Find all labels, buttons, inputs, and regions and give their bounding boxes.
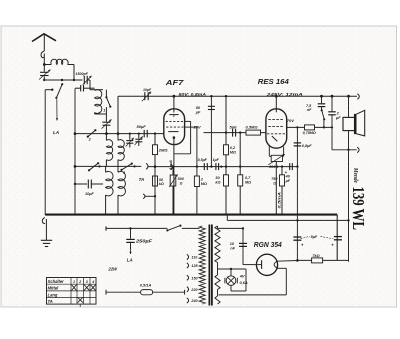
svg-text:TA: TA (48, 299, 53, 304)
svg-text:22W: 22W (107, 266, 118, 271)
svg-text:4: 4 (91, 280, 94, 284)
svg-text:7kΩ: 7kΩ (312, 254, 319, 258)
svg-text:5nF: 5nF (230, 125, 238, 130)
svg-text:0,5mA: 0,5mA (276, 192, 281, 209)
svg-text:25V: 25V (193, 124, 201, 129)
svg-text:1: 1 (103, 109, 105, 113)
svg-text:1mA: 1mA (169, 160, 173, 170)
svg-text:1: 1 (73, 280, 75, 284)
svg-text:70V: 70V (287, 118, 294, 123)
svg-text:4V: 4V (239, 273, 245, 278)
svg-text:139 WL: 139 WL (349, 187, 368, 231)
svg-text:1µF: 1µF (213, 158, 220, 162)
svg-text:+: + (331, 242, 334, 247)
svg-text:Ω: Ω (272, 181, 276, 185)
svg-text:240: 240 (190, 299, 198, 303)
svg-text:125: 125 (191, 264, 198, 268)
svg-text:µF: µF (195, 110, 201, 114)
svg-text:kΩ: kΩ (215, 180, 220, 184)
svg-text:Mende: Mende (352, 167, 359, 183)
svg-text:2MΩ: 2MΩ (158, 147, 169, 152)
svg-text:2: 2 (78, 280, 81, 284)
svg-text:0,8µF: 0,8µF (302, 144, 312, 148)
svg-text:Lang: Lang (48, 292, 58, 297)
svg-text:220: 220 (190, 288, 198, 292)
svg-text:kΩ: kΩ (159, 182, 164, 186)
svg-text:MΩ: MΩ (230, 150, 236, 154)
svg-text:1500pF: 1500pF (76, 72, 89, 76)
svg-text:MΩ: MΩ (201, 182, 207, 186)
svg-text:0,6A: 0,6A (240, 280, 248, 285)
svg-text:10µF: 10µF (85, 192, 94, 196)
svg-text:8µF: 8µF (311, 235, 318, 239)
svg-text:250µF: 250µF (135, 239, 153, 244)
svg-text:10pF: 10pF (143, 88, 152, 92)
svg-text:µF: µF (335, 116, 341, 120)
svg-text:150: 150 (191, 276, 198, 280)
svg-text:LA: LA (127, 258, 133, 263)
svg-text:RES 164: RES 164 (258, 77, 290, 86)
svg-text:0,5µF: 0,5µF (198, 158, 208, 162)
svg-text:nF: nF (307, 108, 312, 112)
svg-text:0,75MΩ: 0,75MΩ (303, 131, 316, 135)
svg-text:Schalter: Schalter (48, 279, 65, 284)
svg-text:245V; 12mA: 245V; 12mA (265, 92, 303, 97)
svg-text:LA: LA (53, 130, 59, 135)
svg-text:0,5/1A: 0,5/1A (140, 282, 152, 287)
svg-text:50µF: 50µF (137, 124, 147, 129)
svg-text:AF7: AF7 (165, 78, 185, 87)
svg-text:nF: nF (230, 246, 235, 250)
svg-text:RGN 354: RGN 354 (254, 240, 282, 249)
svg-text:110: 110 (191, 256, 198, 260)
svg-text:TA: TA (139, 177, 145, 182)
svg-text:+: + (301, 243, 304, 248)
svg-text:Ω: Ω (179, 182, 183, 186)
svg-text:Mittel: Mittel (48, 286, 60, 291)
svg-text:µF: µF (285, 179, 291, 183)
svg-text:3: 3 (86, 280, 88, 284)
svg-text:0,5MΩ: 0,5MΩ (246, 125, 259, 130)
svg-text:800Ω: 800Ω (269, 165, 278, 169)
svg-text:50V; 0,8mA: 50V; 0,8mA (179, 92, 207, 97)
svg-text:MΩ: MΩ (245, 180, 251, 184)
